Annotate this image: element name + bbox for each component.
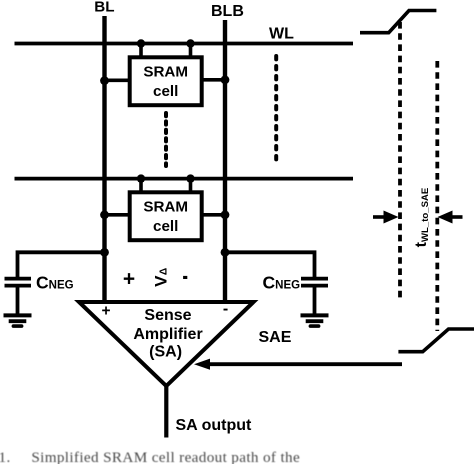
capacitor CNEG right bottom plate bbox=[301, 284, 328, 288]
dotted continuation between SRAM cells bbox=[164, 113, 168, 166]
wire cell2 word stub right bbox=[189, 179, 193, 193]
svg-text:+: + bbox=[123, 267, 135, 290]
svg-text:V: V bbox=[152, 275, 171, 287]
wire BLB to CNEG right bbox=[225, 252, 315, 277]
wire cell2 to BLB bbox=[202, 213, 226, 217]
ground right bbox=[301, 313, 329, 317]
node junction WL-cell1 left bbox=[137, 39, 145, 47]
capacitor CNEG left top plate bbox=[5, 277, 32, 281]
svg-text:-: - bbox=[223, 301, 228, 318]
svg-text:(SA): (SA) bbox=[149, 344, 182, 361]
waveform WL rising edge bbox=[360, 11, 436, 33]
dashed marker line at SAE edge bbox=[435, 61, 439, 331]
ground left bbox=[4, 313, 32, 317]
svg-text:WL: WL bbox=[269, 25, 294, 42]
svg-text:SRAM: SRAM bbox=[143, 64, 188, 81]
node junction BLB-cell2 bbox=[221, 210, 230, 219]
label delta-V bbox=[152, 275, 171, 287]
op-amp sense amplifier SA bbox=[79, 302, 254, 386]
wire cell1 to BL bbox=[105, 79, 131, 83]
svg-text:SRAM: SRAM bbox=[143, 199, 188, 216]
node junction WL-cell1 right bbox=[186, 39, 194, 47]
svg-text:SAE: SAE bbox=[259, 329, 292, 346]
wire CNEG right to ground bbox=[313, 287, 317, 315]
SRAM cell 1 box bbox=[130, 57, 202, 105]
wire BL (bit line) bbox=[102, 16, 106, 302]
wire BLB (bit line bar) bbox=[223, 20, 227, 302]
capacitor CNEG right top plate bbox=[301, 277, 328, 281]
node junction BLB-cell1 bbox=[221, 75, 230, 84]
wire cell2 to BL bbox=[105, 213, 131, 217]
node junction WL2-cell2 left bbox=[137, 174, 145, 182]
wire SA output bbox=[164, 385, 168, 438]
wire cell2 word stub left bbox=[139, 179, 143, 193]
svg-text:1. Simplified SRAM cell re: 1. Simplified SRAM cell readout path of … bbox=[0, 449, 300, 464]
wire cell1 word stub left bbox=[139, 44, 143, 59]
wire BL to CNEG left bbox=[18, 252, 105, 277]
svg-text:BL: BL bbox=[94, 0, 114, 15]
svg-text:Amplifier: Amplifier bbox=[133, 326, 202, 343]
node junction BLB-CNEG bbox=[221, 248, 230, 257]
wire cell1 to BLB bbox=[202, 78, 226, 82]
svg-text:+: + bbox=[102, 303, 111, 320]
SRAM cell 2 box bbox=[130, 192, 202, 240]
capacitor CNEG left bottom plate bbox=[5, 284, 32, 288]
node junction BL-CNEG bbox=[100, 248, 109, 257]
svg-text:cell: cell bbox=[153, 83, 178, 100]
arrow right-pointing at tWL marker bbox=[373, 215, 385, 219]
arrowhead into SA bbox=[194, 359, 210, 370]
svg-text:Δ: Δ bbox=[158, 268, 169, 275]
wire CNEG left to ground bbox=[16, 287, 20, 315]
waveform SAE rising edge bbox=[398, 329, 474, 352]
dotted continuation right of cells bbox=[274, 56, 278, 163]
dashed marker line at WL edge bbox=[398, 22, 402, 298]
node junction WL2-cell2 right bbox=[186, 174, 194, 182]
label tWL_to_SAE bbox=[413, 187, 431, 247]
wire WL2 (word line 2) bbox=[15, 177, 354, 181]
wire WL (word line 1) bbox=[15, 42, 354, 46]
svg-text:BLB: BLB bbox=[211, 3, 244, 20]
svg-text:Sense: Sense bbox=[144, 307, 191, 324]
wire SAE arrow line bbox=[206, 362, 402, 366]
svg-text:cell: cell bbox=[153, 218, 178, 235]
node junction BL-cell2 bbox=[100, 210, 109, 219]
node junction BL-cell1 bbox=[100, 76, 109, 85]
wire cell1 word stub right bbox=[189, 44, 193, 59]
label minus input node bbox=[183, 276, 187, 279]
arrow left-pointing at tSAE marker bbox=[452, 215, 463, 219]
svg-text:SA output: SA output bbox=[176, 417, 253, 434]
